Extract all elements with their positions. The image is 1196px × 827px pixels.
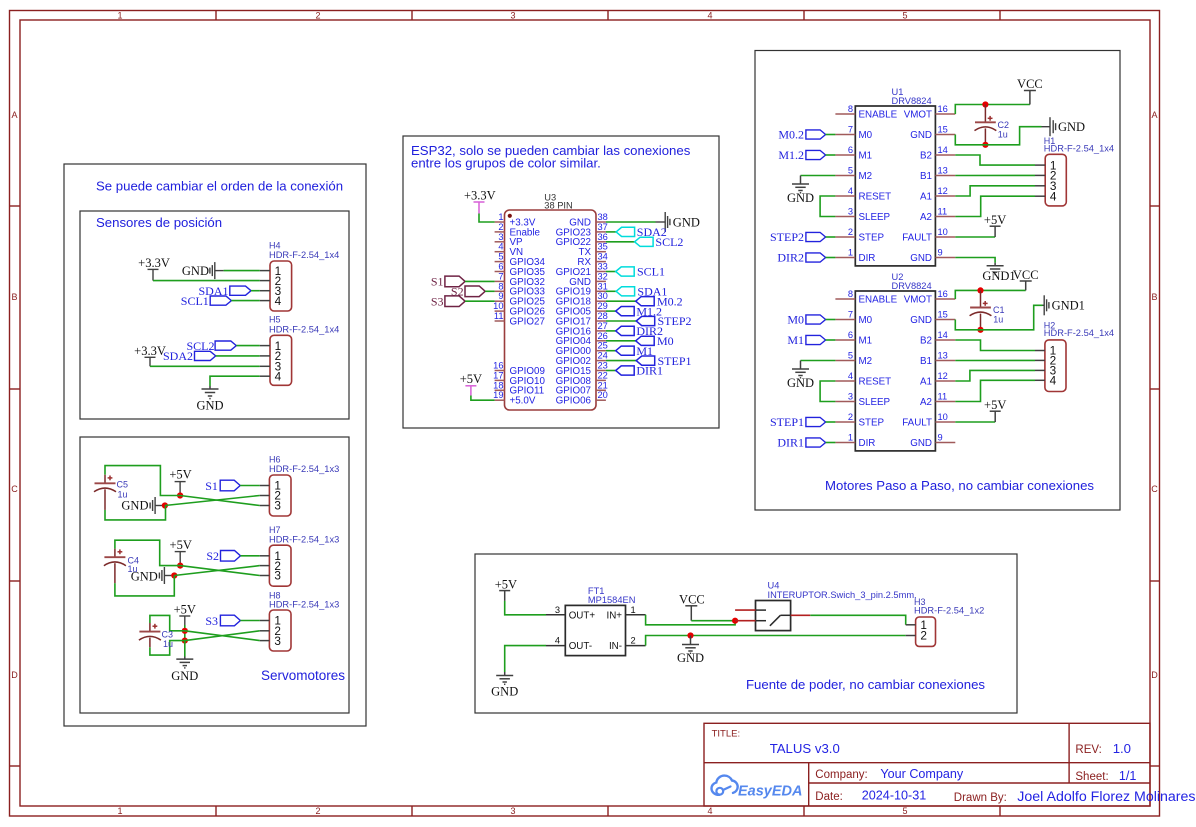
- wire M1 to U2 pin6: [826, 339, 836, 341]
- wire M0.2 to U1 pin7: [826, 134, 836, 136]
- svg-text:GND: GND: [910, 253, 932, 264]
- wire U2 A1 to H2 pin3: [955, 370, 1035, 381]
- wire U1 GND pin9 to GND1: [955, 258, 995, 263]
- svg-text:2024-10-31: 2024-10-31: [862, 789, 926, 803]
- svg-text:5: 5: [498, 252, 503, 262]
- svg-text:VMOT: VMOT: [904, 109, 932, 120]
- svg-text:OUT-: OUT-: [569, 641, 592, 652]
- ground GND at H6: [121, 497, 162, 514]
- svg-text:DIR1: DIR1: [636, 364, 663, 378]
- ground GND right of U1: [1042, 117, 1086, 136]
- svg-text:GND1: GND1: [982, 269, 1015, 283]
- wire M0 to U2 pin7: [826, 319, 836, 321]
- svg-text:GND: GND: [182, 264, 209, 278]
- svg-text:+5V: +5V: [984, 213, 1006, 227]
- svg-text:4: 4: [707, 11, 712, 21]
- svg-text:29: 29: [598, 301, 608, 311]
- IC U2 DRV8824: [835, 272, 955, 451]
- svg-text:B: B: [1151, 292, 1157, 302]
- wire U2 B2 to H2 pin1: [955, 340, 1035, 351]
- wire S1 to U3 pin7: [465, 280, 495, 282]
- power flag VCC at U2: [1013, 268, 1039, 291]
- svg-text:+5V: +5V: [170, 538, 192, 552]
- wire U2 B1 to H2 pin2: [955, 359, 1035, 361]
- svg-text:M2: M2: [859, 356, 873, 367]
- svg-text:2: 2: [848, 412, 853, 422]
- wire C5 bottom loop: [105, 506, 166, 520]
- net label SCL1: [181, 294, 232, 308]
- svg-text:REV:: REV:: [1075, 744, 1101, 756]
- svg-text:Fuente de poder, no cambiar co: Fuente de poder, no cambiar conexiones: [746, 677, 985, 692]
- junction at +5V H6: [177, 492, 183, 498]
- svg-text:STEP1: STEP1: [770, 415, 804, 429]
- svg-text:FAULT: FAULT: [902, 232, 932, 243]
- wire U1 VMOT to VCC: [955, 105, 1030, 115]
- svg-text:SCL2: SCL2: [655, 235, 683, 249]
- svg-text:B2: B2: [920, 335, 932, 346]
- svg-text:S3: S3: [431, 294, 444, 308]
- net label STEP2 at U1 pin2: [770, 230, 826, 244]
- svg-text:5: 5: [902, 11, 907, 21]
- svg-text:entre los grupos de color simi: entre los grupos de color similar.: [411, 156, 601, 171]
- svg-text:2: 2: [631, 636, 636, 646]
- svg-text:HDR-F-2.54_1x3: HDR-F-2.54_1x3: [269, 600, 339, 610]
- section box: Fuente de poder: [475, 554, 1017, 713]
- wire STEP1 to U2 pin2: [826, 421, 836, 423]
- svg-text:Sheet:: Sheet:: [1075, 771, 1108, 783]
- svg-text:15: 15: [938, 125, 948, 135]
- svg-text:7: 7: [498, 271, 503, 281]
- svg-text:HDR-F-2.54_1x4: HDR-F-2.54_1x4: [1044, 328, 1114, 338]
- svg-text:C: C: [11, 484, 18, 494]
- wire VCC to switch junction: [691, 620, 735, 622]
- connector H2 HDR-F-2.54_1x4: [1035, 320, 1114, 391]
- net label STEP1 at U3 pin24: [606, 360, 636, 362]
- svg-text:3: 3: [848, 207, 853, 217]
- wire FT1 IN+ to switch junction: [646, 615, 736, 625]
- svg-text:19: 19: [493, 390, 503, 400]
- junction at C1 top: [977, 287, 983, 293]
- svg-text:Se puede cambiar el orden de l: Se puede cambiar el orden de la conexión: [96, 179, 343, 194]
- svg-text:Motores Paso a Paso, no cambia: Motores Paso a Paso, no cambiar conexion…: [825, 478, 1094, 493]
- svg-text:1: 1: [848, 433, 853, 443]
- switch U4 INTERUPTOR: [735, 581, 917, 631]
- connector H8 HDR-F-2.54_1x3: [260, 591, 340, 651]
- svg-text:14: 14: [938, 145, 948, 155]
- svg-text:M1: M1: [787, 333, 804, 347]
- net label SDA1: [198, 284, 251, 298]
- junction at C2 top: [982, 101, 988, 107]
- svg-text:M0: M0: [787, 313, 804, 327]
- net label SCL1 at U3 pin33: [606, 271, 616, 273]
- svg-text:HDR-F-2.54_1x3: HDR-F-2.54_1x3: [269, 464, 339, 474]
- svg-text:24: 24: [598, 351, 608, 361]
- svg-text:26: 26: [598, 331, 608, 341]
- svg-text:1: 1: [848, 248, 853, 258]
- power flag +5V at U1 FAULT: [984, 213, 1006, 237]
- svg-text:B1: B1: [920, 171, 932, 182]
- svg-text:20: 20: [598, 390, 608, 400]
- svg-text:10: 10: [938, 227, 948, 237]
- IC U3 38 PIN ESP32: [493, 192, 608, 410]
- wire U1 FAULT to +5V: [955, 236, 995, 238]
- section box: Servomotores: [80, 437, 349, 713]
- svg-text:1: 1: [631, 605, 636, 615]
- net label M0 at U2 pin7: [787, 313, 825, 327]
- capacitor C4 1u: [104, 549, 139, 583]
- wire junction to H8 pin2: [185, 631, 260, 641]
- svg-text:STEP2: STEP2: [770, 230, 804, 244]
- wire U2 VMOT to VCC: [955, 290, 1025, 299]
- svg-text:+5V: +5V: [174, 603, 196, 617]
- title block table: [704, 723, 1150, 806]
- net port S1 at U3 pin7: [431, 275, 465, 289]
- svg-text:3: 3: [274, 634, 281, 648]
- svg-text:10: 10: [938, 412, 948, 422]
- IC FT1 MP1584EN: [546, 586, 646, 656]
- svg-text:5: 5: [848, 351, 853, 361]
- wire FT1 IN- to H3 pin2: [646, 636, 906, 646]
- svg-text:STEP: STEP: [859, 232, 885, 243]
- svg-text:D: D: [11, 670, 18, 680]
- wire switch to H3 pin1: [810, 615, 905, 625]
- svg-text:A: A: [11, 110, 17, 120]
- ground GND at U2 pin5: [787, 361, 814, 390]
- svg-text:DIR2: DIR2: [777, 251, 804, 265]
- capacitor C3 1u: [139, 623, 173, 649]
- svg-text:TALUS v3.0: TALUS v3.0: [770, 741, 840, 756]
- svg-text:35: 35: [598, 242, 608, 252]
- svg-text:4: 4: [275, 294, 282, 308]
- svg-text:1: 1: [498, 212, 503, 222]
- wire +5V to U3 pin19: [471, 396, 495, 401]
- IC U1 DRV8824: [835, 87, 955, 266]
- wire C5 top loop: [105, 466, 180, 496]
- svg-text:DRV8824: DRV8824: [892, 96, 932, 106]
- svg-text:3: 3: [498, 232, 503, 242]
- net port S2 at U3 pin8: [451, 285, 485, 299]
- svg-text:S1: S1: [205, 479, 218, 493]
- svg-text:M0.2: M0.2: [778, 128, 804, 142]
- net label M0 at U3 pin26: [606, 340, 636, 342]
- svg-text:Drawn By:: Drawn By:: [954, 792, 1007, 804]
- svg-text:HDR-F-2.54_1x3: HDR-F-2.54_1x3: [269, 534, 339, 544]
- wire U2 FAULT to +5V: [955, 421, 995, 423]
- svg-text:ENABLE: ENABLE: [859, 294, 898, 305]
- power flag VCC: [1017, 77, 1043, 104]
- svg-text:1u: 1u: [998, 129, 1008, 139]
- ground GND at H7: [131, 567, 172, 584]
- ground GND mid power section: [677, 636, 704, 665]
- svg-text:H7: H7: [269, 525, 281, 535]
- net label M0.2 at U3 pin30: [606, 300, 636, 302]
- net label SDA1 at U3 pin31: [606, 290, 616, 292]
- wire U2 RESET-SLEEP loop: [820, 381, 835, 402]
- title block labels: [712, 728, 1109, 804]
- svg-text:+5V: +5V: [984, 398, 1006, 412]
- svg-text:Company:: Company:: [815, 769, 867, 781]
- svg-text:9: 9: [938, 248, 943, 258]
- wire S3 to H8 pin1: [240, 620, 259, 622]
- wire M1.2 to U1 pin6: [826, 154, 836, 156]
- wire U1 B1 to H1 pin2: [955, 174, 1035, 176]
- svg-text:4: 4: [1050, 374, 1057, 388]
- svg-text:HDR-F-2.54_1x4: HDR-F-2.54_1x4: [1044, 144, 1114, 154]
- svg-text:C: C: [1151, 484, 1158, 494]
- svg-text:13: 13: [938, 166, 948, 176]
- wire S3 to U3 pin9: [465, 300, 495, 302]
- svg-text:STEP: STEP: [859, 417, 885, 428]
- wire +3.3V to H5 pin3: [150, 365, 260, 367]
- wire U1 A1 to H1 pin3: [955, 186, 1035, 196]
- wire U3 pin38 to GND: [606, 221, 656, 223]
- wire U2 pin5 M2 to GND: [801, 360, 836, 362]
- svg-text:4: 4: [1050, 189, 1057, 203]
- net label DIR1 at U3 pin23: [606, 370, 616, 372]
- svg-text:RESET: RESET: [859, 191, 892, 202]
- svg-text:GND1: GND1: [1052, 299, 1085, 313]
- svg-text:SDA2: SDA2: [163, 349, 193, 363]
- wire SDA2 to H5 pin2: [216, 355, 260, 357]
- svg-text:16: 16: [938, 289, 948, 299]
- wire FT1 OUT- to GND: [505, 646, 546, 672]
- svg-text:M1.2: M1.2: [778, 148, 804, 162]
- section box: Se puede cambiar: [64, 164, 366, 726]
- net label M1 at U2 pin6: [787, 333, 825, 347]
- svg-text:VCC: VCC: [1013, 268, 1039, 282]
- power flag +5V at H6: [169, 468, 191, 496]
- wire S2 to U3 pin8: [485, 290, 494, 292]
- wire H5 pin4 to GND: [210, 376, 260, 386]
- svg-text:C3: C3: [162, 630, 174, 640]
- svg-text:31: 31: [598, 281, 608, 291]
- svg-text:S2: S2: [206, 549, 219, 563]
- svg-text:21: 21: [598, 380, 608, 390]
- svg-text:A2: A2: [920, 212, 932, 223]
- svg-text:25: 25: [598, 341, 608, 351]
- net label SCL2: [186, 339, 236, 353]
- svg-text:DRV8824: DRV8824: [892, 281, 932, 291]
- svg-text:+5V: +5V: [169, 468, 191, 482]
- svg-text:SLEEP: SLEEP: [859, 397, 891, 408]
- power flag +5V at U2 FAULT: [984, 398, 1006, 422]
- svg-text:GND: GND: [491, 684, 518, 698]
- svg-text:15: 15: [938, 310, 948, 320]
- net label SDA2: [163, 349, 216, 363]
- wire S2 to H7 pin1: [241, 555, 260, 557]
- junction at switch input: [732, 618, 738, 624]
- svg-text:GND: GND: [196, 399, 223, 413]
- ground GND1 right of U2: [1043, 295, 1085, 315]
- svg-text:S3: S3: [205, 614, 218, 628]
- connector H1 HDR-F-2.54_1x4: [1035, 136, 1114, 206]
- svg-text:2: 2: [848, 227, 853, 237]
- net label S3 at H8: [205, 614, 240, 628]
- svg-text:22: 22: [598, 370, 608, 380]
- svg-text:38 PIN: 38 PIN: [544, 201, 572, 211]
- power flag VCC at switch: [679, 592, 705, 620]
- svg-text:18: 18: [493, 380, 503, 390]
- net label S2 at H7: [206, 549, 240, 563]
- ground GND below H5: [196, 386, 223, 413]
- ground GND below FT1: [491, 672, 518, 698]
- svg-text:DIR: DIR: [859, 253, 876, 264]
- svg-text:B2: B2: [920, 150, 932, 161]
- ground GND at U3 pin38: [656, 212, 700, 232]
- net label SCL2 at U3 pin36: [606, 241, 635, 243]
- svg-text:ENABLE: ENABLE: [859, 109, 898, 120]
- wire DIR1 to U2 pin1: [826, 442, 836, 444]
- svg-text:+3.3V: +3.3V: [134, 344, 166, 358]
- svg-text:1u: 1u: [993, 315, 1003, 325]
- svg-text:36: 36: [598, 232, 608, 242]
- wire +5V junction to H6 pin3: [180, 496, 260, 506]
- capacitor C1 1u: [970, 290, 1005, 329]
- net label STEP1 at U2 pin2: [770, 415, 826, 429]
- connector H3 HDR-F-2.54_1x2: [906, 597, 985, 646]
- net label M1.2 at U3 pin29: [606, 310, 616, 312]
- svg-text:1u: 1u: [118, 490, 128, 500]
- capacitor C2 1u: [975, 105, 1010, 145]
- net label DIR1 at U2 pin1: [777, 436, 825, 450]
- svg-text:HDR-F-2.54_1x2: HDR-F-2.54_1x2: [914, 605, 984, 615]
- svg-text:M1: M1: [859, 335, 873, 346]
- svg-text:GND: GND: [910, 315, 932, 326]
- svg-text:VMOT: VMOT: [904, 294, 932, 305]
- svg-text:OUT+: OUT+: [569, 610, 596, 621]
- svg-text:12: 12: [938, 371, 948, 381]
- wire +3.3V to U3 pin1: [479, 214, 495, 223]
- svg-text:11: 11: [938, 392, 948, 402]
- section box: ESP32: [403, 136, 719, 428]
- power flag +5V at FT1 input: [495, 578, 517, 601]
- svg-text:4: 4: [498, 242, 503, 252]
- svg-text:Your Company: Your Company: [880, 767, 964, 781]
- svg-text:7: 7: [848, 125, 853, 135]
- svg-text:+5V: +5V: [460, 372, 482, 386]
- wire C4 top loop: [115, 540, 180, 565]
- wire U1 GND pin15 to GND: [955, 127, 1041, 145]
- svg-text:16: 16: [493, 361, 503, 371]
- svg-text:M2: M2: [859, 171, 873, 182]
- svg-text:13: 13: [938, 351, 948, 361]
- title block values: [770, 741, 1196, 805]
- power flag +5V at H7: [170, 538, 192, 566]
- svg-text:A2: A2: [920, 397, 932, 408]
- connector H5 HDR-F-2.54_1x4: [260, 315, 340, 386]
- svg-text:SCL1: SCL1: [637, 265, 665, 279]
- svg-text:HDR-F-2.54_1x4: HDR-F-2.54_1x4: [269, 250, 339, 260]
- svg-text:Sensores de posición: Sensores de posición: [96, 215, 222, 230]
- section box: Sensores de posicion: [80, 211, 349, 419]
- svg-text:7: 7: [848, 310, 853, 320]
- wire U1 RESET-SLEEP loop: [820, 196, 835, 217]
- wire SCL1 to H4 pin4: [231, 300, 259, 302]
- svg-text:9: 9: [938, 433, 943, 443]
- svg-text:27: 27: [598, 321, 608, 331]
- wire junction down to GND: [184, 641, 186, 657]
- svg-text:IN+: IN+: [606, 610, 622, 621]
- junction at GND H7: [171, 572, 177, 578]
- svg-text:3: 3: [510, 806, 515, 816]
- svg-text:GND: GND: [787, 191, 814, 205]
- svg-text:S1: S1: [431, 275, 444, 289]
- wire DIR2 to U1 pin1: [826, 257, 836, 259]
- ground GND1 below U1: [982, 263, 1015, 283]
- svg-text:4: 4: [848, 371, 853, 381]
- svg-text:5: 5: [902, 806, 907, 816]
- net label M1.2 at U1 pin6: [778, 148, 825, 162]
- svg-text:A: A: [1151, 110, 1157, 120]
- wire U2 GND pin15 to GND1: [955, 305, 1042, 330]
- junction at +5V H7: [177, 563, 183, 569]
- svg-text:28: 28: [598, 311, 608, 321]
- svg-text:GND: GND: [910, 438, 932, 449]
- svg-text:4: 4: [275, 370, 282, 384]
- svg-text:H5: H5: [269, 315, 281, 325]
- svg-text:6: 6: [848, 145, 853, 155]
- svg-text:D: D: [1151, 670, 1158, 680]
- svg-text:8: 8: [848, 289, 853, 299]
- wire U1 pin5 M2 to GND: [801, 175, 836, 177]
- svg-text:B: B: [11, 292, 17, 302]
- svg-text:IN-: IN-: [609, 641, 622, 652]
- wire C4 bottom loop: [115, 576, 174, 596]
- svg-text:M1: M1: [859, 150, 873, 161]
- ground GND at H4 pin1: [182, 262, 224, 279]
- wire SDA1 to H4 pin3: [251, 290, 260, 292]
- wire U1 A2 to H1 pin4: [955, 196, 1035, 216]
- section box: Motores Paso a Paso: [755, 51, 1120, 511]
- svg-text:4: 4: [555, 636, 560, 646]
- wire +5V junction to H7 pin3: [180, 566, 260, 576]
- svg-text:8: 8: [498, 281, 503, 291]
- svg-text:14: 14: [938, 330, 948, 340]
- svg-text:11: 11: [938, 207, 948, 217]
- svg-text:2: 2: [315, 11, 320, 21]
- svg-text:FAULT: FAULT: [902, 417, 932, 428]
- wire C3 top loop: [150, 615, 185, 630]
- svg-text:30: 30: [598, 291, 608, 301]
- net label M1 at U3 pin25: [606, 350, 616, 352]
- net label STEP2 at U3 pin28: [606, 320, 636, 322]
- net label S1 at H6: [205, 479, 240, 493]
- junction at H8 pin2 row: [182, 628, 188, 634]
- svg-text:Servomotores: Servomotores: [261, 668, 345, 683]
- junction at H8 pin3 row: [182, 638, 188, 644]
- net label SDA2 at U3 pin37: [606, 231, 616, 233]
- svg-text:GND: GND: [171, 669, 198, 683]
- svg-text:GND: GND: [910, 130, 932, 141]
- wire C3 bottom loop: [150, 641, 185, 656]
- svg-text:6: 6: [498, 262, 503, 272]
- wire S1 to H6 pin1: [240, 485, 260, 487]
- capacitor C5 1u: [94, 475, 128, 510]
- wire GND junction to H6 pin2: [165, 496, 260, 506]
- svg-text:M0: M0: [859, 315, 873, 326]
- svg-text:HDR-F-2.54_1x4: HDR-F-2.54_1x4: [269, 324, 339, 334]
- svg-text:1: 1: [117, 806, 122, 816]
- power flag +3.3V at U3 pin1: [464, 188, 496, 213]
- svg-text:+5V: +5V: [495, 578, 517, 592]
- svg-text:A1: A1: [920, 376, 932, 387]
- svg-text:GND: GND: [121, 499, 148, 513]
- svg-text:+3.3V: +3.3V: [464, 188, 496, 202]
- svg-text:33: 33: [598, 262, 608, 272]
- svg-text:16: 16: [938, 104, 948, 114]
- junction at C2 bottom: [982, 142, 988, 148]
- svg-text:23: 23: [598, 361, 608, 371]
